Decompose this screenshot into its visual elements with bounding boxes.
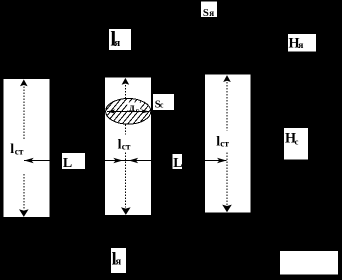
svg-text:я: я [298, 41, 303, 51]
L dimension arrowhead right at leg2 centerline [113, 158, 123, 164]
l_ст label 1 background [6, 141, 26, 159]
d_c diameter line [107, 111, 150, 113]
svg-text:д: д [129, 102, 135, 113]
L label box 1 [62, 153, 85, 169]
l_ст label 2 background [114, 135, 131, 153]
svg-text:L: L [63, 156, 72, 171]
svg-text:l: l [10, 142, 14, 157]
svg-text:L: L [173, 156, 182, 171]
L dimension arrowhead right at leg3 centerline [217, 158, 227, 164]
arrowhead up leg2 [122, 78, 130, 85]
H_я label box [288, 34, 316, 52]
svg-text:с: с [136, 107, 139, 115]
l_ст label 3 background [212, 131, 230, 152]
L dimension line inside leg1 [24, 160, 50, 162]
core leg 3 (right white rectangle) [205, 75, 250, 213]
svg-text:S: S [203, 7, 209, 19]
hatching [93, 97, 172, 126]
svg-text:ст: ст [15, 147, 24, 157]
svg-text:ст: ст [122, 143, 131, 153]
centerline leg1 (dotted) [24, 82, 227, 210]
L label box 2 [173, 154, 183, 169]
S_c label box [153, 94, 174, 110]
centerline leg2 (dotted) [125, 85, 127, 99]
centerline leg3 (dotted) [226, 82, 228, 131]
H_c label box [284, 128, 308, 160]
core leg 2 (middle white rectangle) [105, 78, 151, 216]
svg-text:с: с [160, 101, 164, 110]
L dimension line inside leg3 [205, 160, 227, 162]
S_я label box [201, 2, 217, 18]
l_я bottom label box [111, 248, 126, 273]
svg-text:с: с [295, 136, 299, 146]
d_c label background [127, 102, 140, 110]
arrowhead down leg2 [121, 207, 131, 215]
L dimension arrowhead left at leg1 centerline [24, 158, 34, 164]
arrowhead down leg3 [222, 205, 232, 213]
l_я top label box [109, 29, 131, 50]
core leg 1 (left white rectangle) [4, 79, 50, 217]
svg-text:я: я [209, 8, 214, 18]
L dimension arrowhead left at leg2 centerline [129, 158, 139, 164]
svg-text:я: я [114, 37, 120, 49]
empty label box bottom right [280, 251, 338, 275]
svg-text:ст: ст [220, 140, 229, 150]
core cross-section ellipse (hatched) [93, 97, 172, 126]
arrowhead up leg1 [20, 79, 28, 86]
d_c arrowhead right [141, 109, 149, 113]
arrowhead down leg1 [19, 209, 29, 217]
svg-text:я: я [116, 257, 122, 268]
L dimension line inside leg2 [105, 160, 151, 162]
d_c arrowhead left [107, 109, 115, 113]
arrowhead up leg3 [223, 75, 231, 82]
